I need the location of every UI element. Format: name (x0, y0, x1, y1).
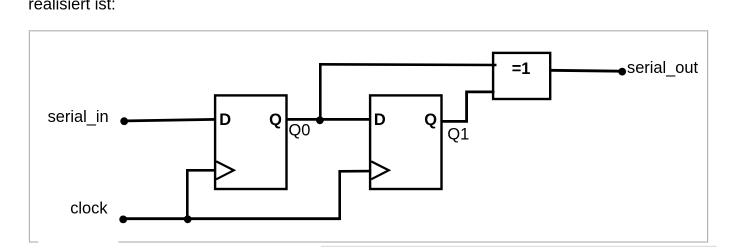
wire FF1 Q to FF2 D (286, 118, 372, 121)
flip-flop U2 body (370, 95, 441, 189)
wire clock horizontal (123, 217, 341, 220)
figure frame (29, 31, 707, 242)
wire Q0 to XOR upper input (319, 63, 497, 66)
node serial_in dot (120, 117, 128, 125)
svg-text:Q: Q (269, 111, 282, 129)
flip-flop U2 clock triangle (371, 161, 389, 179)
svg-text:serial_out: serial_out (627, 59, 699, 77)
svg-text:Q1: Q1 (447, 126, 469, 144)
svg-text:D: D (374, 111, 386, 129)
flip-flop U1 clock triangle (216, 161, 234, 179)
svg-text:realisiert ist:: realisiert ist: (28, 0, 115, 14)
rule below figure (321, 245, 717, 247)
svg-text:=1: =1 (512, 60, 531, 78)
xor gate U3 body (493, 53, 550, 99)
wire FF2 Q output (441, 92, 495, 122)
wire clock riser to FF2 (340, 171, 372, 220)
node clock dot (119, 216, 127, 224)
frame bottom border gap (38, 240, 118, 244)
wire Q0 junction up (319, 64, 322, 119)
node clock junction dot (184, 215, 192, 223)
svg-text:clock: clock (70, 200, 108, 218)
node Q0 junction dot (316, 116, 324, 124)
node serial_out dot (618, 68, 626, 76)
svg-text:D: D (219, 111, 231, 129)
svg-text:Q0: Q0 (289, 122, 311, 140)
flip-flop U1 body (215, 95, 286, 189)
wire clock riser to FF1 (187, 170, 216, 220)
wire XOR output to serial_out (550, 69, 622, 73)
wire serial_in to FF1 D input (124, 119, 216, 121)
svg-text:serial_in: serial_in (48, 108, 109, 126)
svg-text:Q: Q (424, 111, 437, 129)
